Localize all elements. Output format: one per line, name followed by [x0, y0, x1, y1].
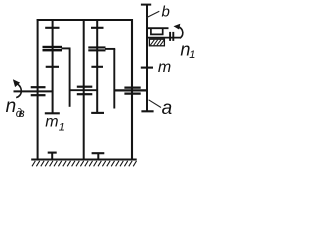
svg-text:m: m	[158, 59, 171, 76]
svg-text:1: 1	[189, 49, 195, 61]
svg-text:1: 1	[59, 121, 65, 133]
svg-text:дв: дв	[16, 108, 25, 120]
svg-text:n: n	[6, 96, 17, 117]
svg-text:m: m	[45, 113, 58, 130]
svg-text:b: b	[162, 4, 170, 21]
svg-text:a: a	[162, 98, 173, 119]
